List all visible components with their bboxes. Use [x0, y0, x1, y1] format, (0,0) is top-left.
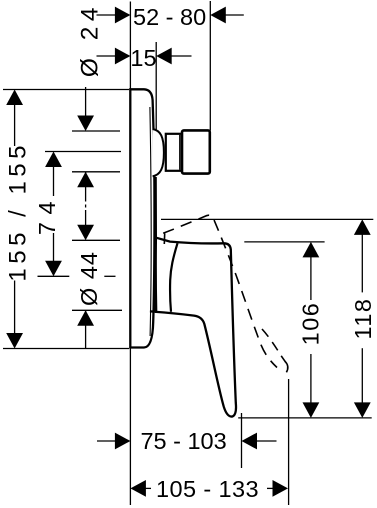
- svg-text:106: 106: [298, 302, 324, 346]
- plate inner contour: [150, 107, 151, 336]
- dashed lever inner edge: [262, 329, 286, 362]
- cartridge small cylinder: [166, 134, 182, 171]
- cartridge step line: [179, 135, 181, 170]
- svg-text:118: 118: [350, 298, 376, 340]
- arrow 74 bottom: [45, 261, 62, 277]
- cartridge sleeve bulge: [153, 129, 164, 176]
- arrow 155/155 bottom: [6, 333, 23, 349]
- dimension O44 line x=85.6: [85, 310, 87, 348]
- wire: top extension line y=89.5: [3, 89, 129, 91]
- escutcheon plate (side view): [130, 89, 154, 347]
- wire: cartridge centerline y=151.5: [45, 151, 121, 153]
- arrow 106 top: [303, 242, 320, 258]
- svg-text:Ø 24: Ø 24: [76, 2, 103, 77]
- arrow 52-80 right: [210, 7, 226, 24]
- lever base bottom stub: [150, 310, 156, 313]
- arrow 75-103 right: [242, 433, 258, 450]
- dimension 118 line x=362.3: [361, 232, 363, 292]
- dimension 75-103 leader lines: [97, 440, 117, 442]
- arrow O24 bottom (points up): [77, 172, 94, 188]
- wire: extension line y=276.3 (spout center): [38, 275, 70, 277]
- wire: extension line y=219.4 (dashed lever top): [161, 218, 373, 220]
- dimension 155/155 line x=14.6: [14, 101, 16, 146]
- lever handle solid (down position): [156, 238, 236, 417]
- arrow 15 right: [156, 48, 172, 65]
- arrow O24 top (points down): [77, 116, 94, 132]
- dimension 74 line x=53.5: [53, 164, 55, 197]
- arrow 52-80 left: [115, 7, 130, 24]
- wire: bottom extension line y=348.5: [3, 348, 129, 350]
- cartridge large cylinder: [182, 130, 210, 173]
- dimension 106 line x=310.9: [310, 254, 312, 300]
- arrow 105-133 left: [130, 480, 146, 497]
- dimension O24 line x=85.6: [85, 87, 87, 119]
- dimension 15 leader lines: [97, 55, 118, 57]
- wire: wall extension line x=130.4: [129, 2, 131, 506]
- arrow O44 bottom (points up): [77, 310, 94, 326]
- wire: extension line y=171.8 (cartridge bottom): [72, 171, 120, 173]
- arrow 15 left: [115, 48, 130, 65]
- dimension 52-80 leader lines: [97, 14, 118, 16]
- svg-text:75 - 103: 75 - 103: [140, 428, 226, 454]
- wire: extension line y=131 (cartridge top): [72, 130, 120, 132]
- wire: extension line y=240.3 (spout top): [72, 239, 120, 241]
- wire: extension line y=310.3 (spout bottom): [72, 309, 122, 311]
- arrow 106 bottom: [303, 402, 320, 418]
- svg-text:105 - 133: 105 - 133: [156, 476, 259, 502]
- wire: extension line y=241.9 (solid lever top): [244, 241, 324, 243]
- arrow 118 bottom: [354, 402, 371, 418]
- svg-text:52 - 80: 52 - 80: [133, 4, 206, 30]
- arrow 155/155 top: [6, 90, 23, 106]
- lever neck contour: [170, 243, 177, 312]
- svg-text:15: 15: [130, 45, 156, 71]
- wire: extension line x=210.3 (cartridge end): [209, 1, 211, 131]
- dashed lever bottom stub dash: [163, 234, 165, 245]
- arrow 75-103 left: [115, 433, 130, 450]
- arrow 74 top: [45, 152, 62, 168]
- arrow 118 top: [354, 219, 371, 235]
- dimension 105-133 stub lines: [143, 487, 151, 489]
- dashed lever top edge (raised position): [158, 215, 278, 367]
- wire: extension line x=241.5 (solid lever tip): [241, 413, 243, 468]
- wire: extension line x=156.2 (plate front): [155, 42, 157, 150]
- dashed lever tip hook: [285, 362, 288, 373]
- plate front raised band: [154, 177, 157, 312]
- svg-text:74: 74: [34, 194, 60, 235]
- arrow 105-133 right: [273, 480, 289, 497]
- svg-text:155 / 155: 155 / 155: [5, 141, 32, 282]
- svg-text:Ø 44: Ø 44: [76, 251, 102, 306]
- wire: extension line y=417.9 (lever bottom): [238, 417, 372, 419]
- arrow O44 top (points down): [77, 225, 94, 241]
- wire: extension line x=288 (dashed lever tip): [288, 379, 290, 505]
